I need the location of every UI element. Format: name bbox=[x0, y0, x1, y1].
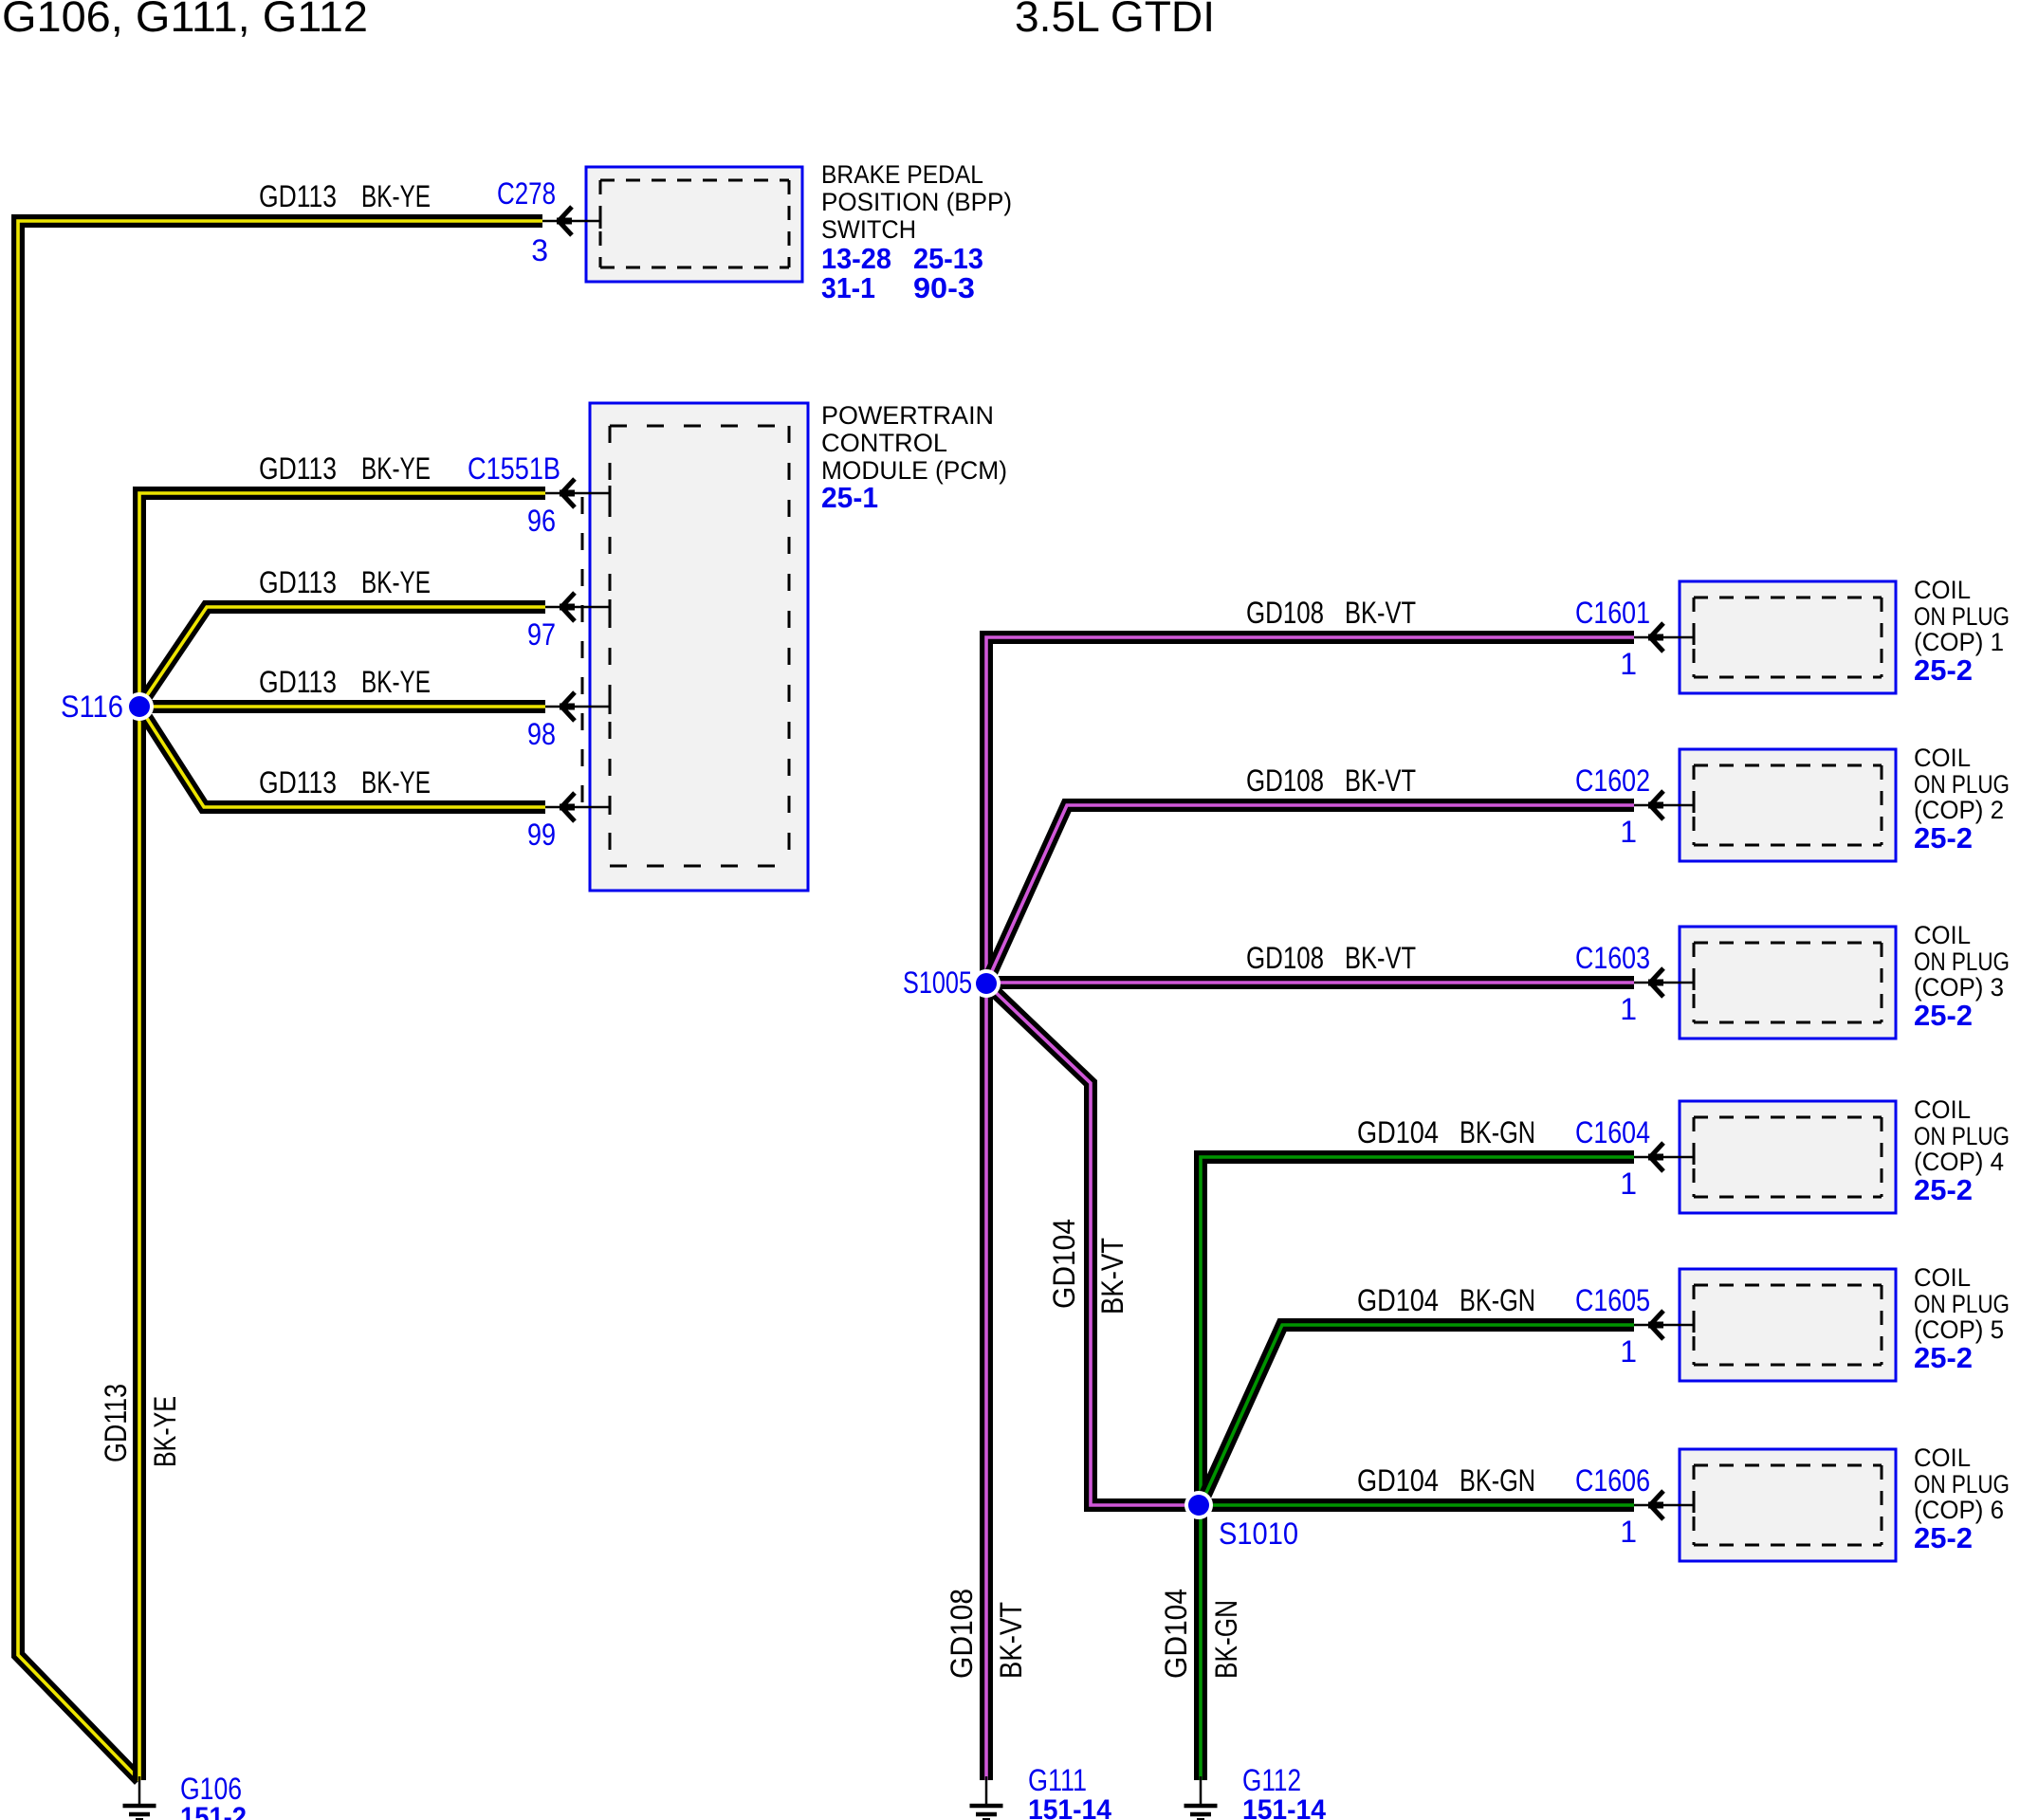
svg-text:151-2: 151-2 bbox=[180, 1802, 247, 1820]
svg-text:POSITION (BPP): POSITION (BPP) bbox=[821, 188, 1012, 216]
svg-text:GD108: GD108 bbox=[1246, 763, 1324, 798]
svg-text:GD108: GD108 bbox=[1246, 941, 1324, 975]
svg-text:C1601: C1601 bbox=[1575, 596, 1650, 630]
svg-text:C278: C278 bbox=[497, 176, 556, 211]
svg-text:BK-YE: BK-YE bbox=[361, 765, 431, 800]
svg-text:25-2: 25-2 bbox=[1914, 1521, 1973, 1554]
svg-text:13-28: 13-28 bbox=[821, 242, 891, 275]
svg-text:25-2: 25-2 bbox=[1914, 1341, 1973, 1374]
svg-text:BRAKE PEDAL: BRAKE PEDAL bbox=[821, 160, 983, 189]
svg-text:G112: G112 bbox=[1242, 1763, 1301, 1797]
svg-text:BK-YE: BK-YE bbox=[361, 451, 431, 486]
svg-text:GD113: GD113 bbox=[259, 565, 337, 599]
svg-text:25-2: 25-2 bbox=[1914, 999, 1973, 1032]
svg-text:31-1: 31-1 bbox=[821, 271, 875, 304]
svg-text:BK-YE: BK-YE bbox=[361, 179, 431, 213]
svg-text:COIL: COIL bbox=[1914, 921, 1971, 949]
svg-text:S116: S116 bbox=[61, 689, 123, 724]
svg-text:BK-GN: BK-GN bbox=[1460, 1463, 1535, 1498]
svg-text:BK-VT: BK-VT bbox=[994, 1602, 1028, 1679]
svg-text:BK-GN: BK-GN bbox=[1209, 1600, 1243, 1679]
svg-text:(COP) 3: (COP) 3 bbox=[1914, 973, 2004, 1002]
svg-text:S1010: S1010 bbox=[1219, 1517, 1298, 1551]
svg-text:C1606: C1606 bbox=[1575, 1463, 1650, 1498]
svg-text:POWERTRAIN: POWERTRAIN bbox=[821, 401, 994, 430]
svg-text:1: 1 bbox=[1620, 647, 1637, 681]
svg-text:25-2: 25-2 bbox=[1914, 821, 1973, 855]
svg-text:98: 98 bbox=[527, 717, 556, 751]
svg-text:GD104: GD104 bbox=[1357, 1115, 1439, 1149]
svg-text:ON PLUG: ON PLUG bbox=[1914, 770, 2010, 799]
svg-text:25-13: 25-13 bbox=[913, 242, 983, 275]
svg-text:99: 99 bbox=[527, 818, 556, 852]
svg-text:96: 96 bbox=[527, 504, 556, 538]
svg-text:3.5L GTDI: 3.5L GTDI bbox=[1015, 0, 1215, 41]
svg-text:GD113: GD113 bbox=[99, 1384, 133, 1462]
svg-text:COIL: COIL bbox=[1914, 1263, 1971, 1292]
svg-text:GD113: GD113 bbox=[259, 451, 337, 486]
svg-text:COIL: COIL bbox=[1914, 576, 1971, 604]
svg-text:GD104: GD104 bbox=[1357, 1283, 1439, 1317]
svg-text:GD108: GD108 bbox=[945, 1589, 979, 1679]
svg-text:C1551B: C1551B bbox=[468, 451, 560, 486]
svg-text:BK-VT: BK-VT bbox=[1345, 763, 1416, 798]
svg-text:(COP) 6: (COP) 6 bbox=[1914, 1496, 2004, 1524]
svg-text:BK-VT: BK-VT bbox=[1345, 596, 1416, 630]
svg-text:GD104: GD104 bbox=[1159, 1589, 1193, 1679]
svg-text:1: 1 bbox=[1620, 815, 1637, 849]
svg-text:GD113: GD113 bbox=[259, 665, 337, 699]
svg-text:COIL: COIL bbox=[1914, 744, 1971, 772]
svg-text:1: 1 bbox=[1620, 1515, 1637, 1549]
svg-text:G106: G106 bbox=[180, 1772, 242, 1806]
svg-text:25-1: 25-1 bbox=[821, 481, 878, 514]
svg-text:151-14: 151-14 bbox=[1028, 1794, 1111, 1820]
svg-text:90-3: 90-3 bbox=[913, 271, 975, 304]
svg-text:C1603: C1603 bbox=[1575, 941, 1650, 975]
svg-text:(COP) 5: (COP) 5 bbox=[1914, 1315, 2004, 1344]
svg-text:(COP) 2: (COP) 2 bbox=[1914, 796, 2004, 824]
svg-text:BK-VT: BK-VT bbox=[1095, 1238, 1129, 1314]
svg-text:ON PLUG: ON PLUG bbox=[1914, 1470, 2010, 1498]
svg-text:ON PLUG: ON PLUG bbox=[1914, 1290, 2010, 1318]
svg-text:GD113: GD113 bbox=[259, 765, 337, 800]
svg-text:151-14: 151-14 bbox=[1242, 1794, 1326, 1820]
svg-text:COIL: COIL bbox=[1914, 1443, 1971, 1472]
svg-text:S1005: S1005 bbox=[903, 965, 972, 1000]
svg-text:SWITCH: SWITCH bbox=[821, 215, 916, 244]
svg-text:C1602: C1602 bbox=[1575, 763, 1650, 798]
svg-text:ON PLUG: ON PLUG bbox=[1914, 602, 2010, 631]
svg-text:BK-GN: BK-GN bbox=[1460, 1283, 1535, 1317]
svg-text:GD113: GD113 bbox=[259, 179, 337, 213]
svg-text:97: 97 bbox=[527, 617, 556, 652]
svg-text:BK-VT: BK-VT bbox=[1345, 941, 1416, 975]
svg-text:ON PLUG: ON PLUG bbox=[1914, 947, 2010, 976]
svg-text:COIL: COIL bbox=[1914, 1095, 1971, 1124]
svg-text:CONTROL: CONTROL bbox=[821, 429, 947, 457]
svg-text:BK-YE: BK-YE bbox=[361, 665, 431, 699]
svg-text:1: 1 bbox=[1620, 1334, 1637, 1369]
svg-text:BK-YE: BK-YE bbox=[148, 1396, 182, 1467]
svg-text:C1605: C1605 bbox=[1575, 1283, 1650, 1317]
svg-text:25-2: 25-2 bbox=[1914, 653, 1973, 687]
svg-text:25-2: 25-2 bbox=[1914, 1173, 1973, 1206]
svg-text:BK-YE: BK-YE bbox=[361, 565, 431, 599]
svg-text:(COP) 1: (COP) 1 bbox=[1914, 628, 2004, 656]
svg-text:GD108: GD108 bbox=[1246, 596, 1324, 630]
svg-text:(COP) 4: (COP) 4 bbox=[1914, 1148, 2004, 1176]
svg-text:GD104: GD104 bbox=[1047, 1219, 1081, 1309]
svg-text:3: 3 bbox=[531, 233, 548, 267]
svg-text:GD104: GD104 bbox=[1357, 1463, 1439, 1498]
svg-text:1: 1 bbox=[1620, 992, 1637, 1026]
svg-text:C1604: C1604 bbox=[1575, 1115, 1650, 1149]
svg-text:ON PLUG: ON PLUG bbox=[1914, 1122, 2010, 1150]
svg-text:G111: G111 bbox=[1028, 1763, 1087, 1797]
svg-text:1: 1 bbox=[1620, 1167, 1637, 1201]
svg-text:BK-GN: BK-GN bbox=[1460, 1115, 1535, 1149]
svg-text:G106, G111, G112: G106, G111, G112 bbox=[2, 0, 368, 41]
